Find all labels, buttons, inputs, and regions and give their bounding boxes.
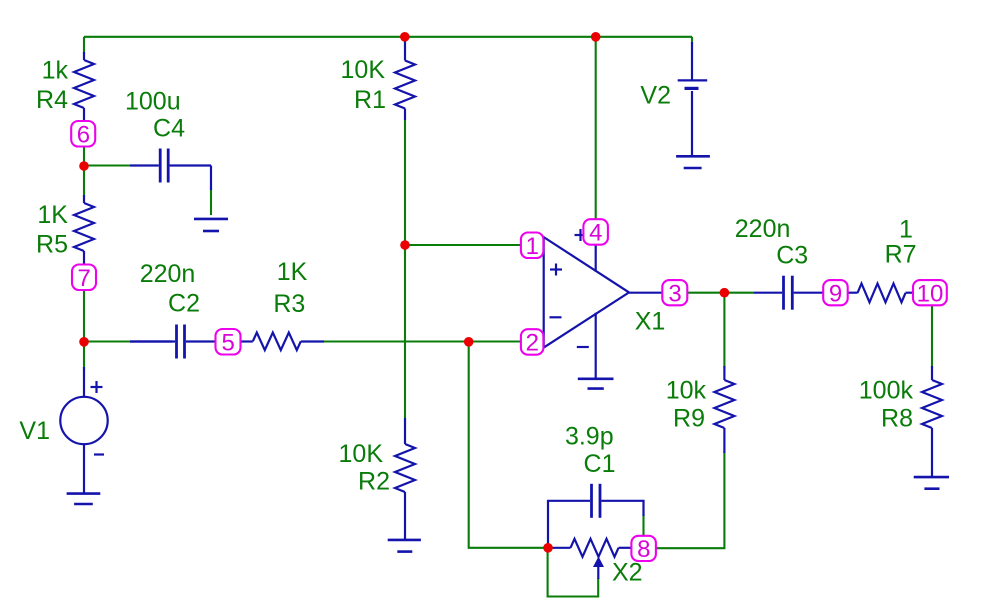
node 7 bubble [72,265,96,291]
X2 wiper arrow [593,557,604,568]
wire feedback from node2 junction down [469,342,549,548]
wire C4 ground stub [210,188,212,215]
svg-text:10: 10 [917,280,944,307]
wire X2 wiper loop [548,548,599,597]
node 1 bubble [521,233,544,259]
node 6 bubble [71,121,95,147]
node 9 bubble [823,280,848,305]
wire left column node6 to node7 [83,37,85,54]
svg-text:5: 5 [222,329,235,356]
svg-text:X2: X2 [612,559,643,587]
wire output node3 to C3 [687,292,754,294]
svg-text:3: 3 [668,280,681,307]
resistor R8 [922,366,942,477]
svg-text:R9: R9 [673,405,705,433]
ground C4 [194,219,228,231]
ground V1 [67,494,101,504]
node 8 bubble [631,536,656,561]
svg-text:10k: 10k [666,377,707,405]
svg-text:4: 4 [589,220,602,247]
svg-text:R3: R3 [273,290,305,318]
capacitor C1 [548,484,644,546]
junction dot output R9 [720,288,730,298]
ground V2 [676,156,710,168]
ground X1 [578,379,614,389]
svg-text:7: 7 [78,265,91,292]
svg-text:R7: R7 [885,241,917,269]
svg-text:220n: 220n [735,215,791,243]
node 2 bubble [521,329,544,355]
svg-text:10K: 10K [339,440,384,468]
voltage source V1 [60,367,107,494]
svg-text:1K: 1K [277,258,308,286]
junction dot X2 C1 [543,543,553,553]
node 10 bubble [913,280,947,305]
svg-text:R1: R1 [354,86,386,114]
svg-text:2: 2 [526,330,539,357]
svg-text:220n: 220n [140,260,196,288]
svg-text:3.9p: 3.9p [565,423,614,451]
svg-text:1: 1 [899,216,913,244]
resistor R5 [74,195,94,265]
svg-text:100k: 100k [859,377,914,405]
wire C4 branch horizontal [84,164,132,166]
svg-text:1k: 1k [42,57,69,85]
svg-text:6: 6 [77,121,90,148]
wire V2 stub [691,37,693,44]
wire node10 down to R8 [931,305,933,368]
resistor R9 [714,366,734,453]
svg-text:1: 1 [526,233,539,260]
svg-text:R2: R2 [358,468,390,496]
wire V+ rail down to node4 [595,37,597,220]
capacitor C4 [130,149,211,191]
resistor R3 [130,333,324,351]
svg-text:1K: 1K [37,201,68,229]
node 4 bubble [583,219,608,245]
svg-text:R8: R8 [881,405,913,433]
ground R8 [914,477,949,489]
junction dot node7 V1 [79,337,89,347]
svg-text:X1: X1 [635,308,666,336]
node 5 bubble [216,329,241,355]
op-amp X1 [544,229,663,379]
svg-text:V2: V2 [640,82,671,110]
wire input row from node7 junction [84,340,132,342]
wire R3 to node2 [322,340,521,342]
junction dot node6 C4 [79,161,89,171]
svg-text:C4: C4 [153,115,185,143]
svg-text:C3: C3 [776,242,808,270]
resistor R2 [395,418,415,540]
wire output junction down to R9 [723,293,725,368]
svg-text:R4: R4 [36,86,68,114]
wire node7 to V1 junction [83,290,85,369]
wire C1 to node8 [642,514,644,537]
resistor R1 [395,37,415,120]
wire node A to opamp input 1 [405,244,522,246]
wire mid column R1 to R2 [404,120,406,418]
resistor R7 [848,284,915,303]
svg-text:C2: C2 [168,290,200,318]
capacitor C2 [130,325,216,359]
junction dot top rail R1 [400,32,410,42]
junction dot feedback input2 [464,337,474,347]
capacitor C3 [754,276,824,310]
svg-text:100u: 100u [125,88,181,116]
svg-text:9: 9 [829,280,842,307]
resistor R4 [74,52,94,122]
ground R2 [388,540,421,552]
svg-text:V1: V1 [19,417,50,445]
junction dot top rail V+ [591,32,601,42]
node 3 bubble [662,280,687,305]
svg-text:R5: R5 [36,231,68,259]
wire top rail [84,36,692,38]
potentiometer X2 [549,539,632,579]
battery V2 [678,42,708,156]
svg-text:10K: 10K [341,56,386,84]
junction dot R1 R2 input1 [400,240,410,250]
svg-text:C1: C1 [584,450,616,478]
wire R9 bottom to node8 [656,451,724,548]
